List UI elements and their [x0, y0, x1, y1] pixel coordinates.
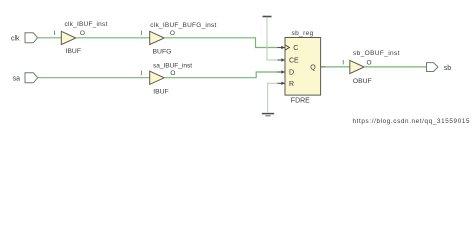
- wire BUFG to FDRE C pin: [164, 38, 281, 48]
- pin stub D with arrow: [278, 70, 286, 73]
- wire sa IBUF to FDRE D pin: [164, 72, 281, 78]
- svg-text:BUFG: BUFG: [153, 49, 172, 56]
- wire sa port to IBUF: [38, 77, 150, 79]
- buffer clk_IBUF_inst: [61, 31, 76, 44]
- svg-text:IBUF: IBUF: [153, 89, 168, 96]
- clock wedge on C pin: [285, 45, 289, 50]
- pin stub R with arrow: [278, 82, 286, 85]
- svg-text:I: I: [342, 59, 344, 66]
- svg-text:sb_reg: sb_reg: [292, 30, 314, 37]
- svg-text:sb: sb: [444, 65, 452, 72]
- svg-text:C: C: [293, 45, 298, 52]
- wire VCC to CE: [267, 17, 281, 60]
- svg-text:D: D: [289, 70, 294, 77]
- svg-text:sa_IBUF_inst: sa_IBUF_inst: [153, 62, 192, 69]
- buffer sb_OBUF_inst: [350, 60, 364, 73]
- wire IBUF to BUFG: [76, 37, 150, 39]
- port clk: [25, 33, 38, 43]
- svg-text:O: O: [80, 30, 85, 37]
- power VCC bar: [263, 16, 272, 18]
- port sa: [25, 73, 38, 83]
- svg-text:CE: CE: [289, 57, 299, 64]
- svg-text:clk_IBUF_BUFG_inst: clk_IBUF_BUFG_inst: [150, 22, 216, 29]
- wire GND to R: [268, 83, 281, 113]
- flip-flop sb_reg FDRE body: [285, 38, 321, 96]
- svg-text:Q: Q: [310, 64, 316, 71]
- svg-text:I: I: [54, 30, 56, 37]
- svg-text:O: O: [170, 30, 175, 37]
- port sb: [427, 63, 439, 72]
- svg-text:clk_IBUF_inst: clk_IBUF_inst: [65, 21, 108, 28]
- wire Q to OBUF: [326, 66, 350, 68]
- pin stub CE with arrow: [278, 58, 286, 61]
- svg-text:https://blog.csdn.net/qq_31559: https://blog.csdn.net/qq_31559015: [353, 118, 470, 125]
- svg-text:sa: sa: [13, 75, 21, 82]
- svg-text:I: I: [140, 70, 142, 77]
- svg-text:sb_OBUF_inst: sb_OBUF_inst: [353, 50, 400, 57]
- svg-text:I: I: [140, 30, 142, 37]
- wire clk port to IBUF: [38, 37, 62, 39]
- buffer sa_IBUF_inst: [150, 71, 165, 84]
- wire OBUF to sb port: [364, 66, 426, 68]
- svg-text:R: R: [289, 81, 294, 88]
- buffer clk_IBUF_BUFG_inst: [150, 31, 165, 44]
- svg-text:clk: clk: [11, 35, 20, 42]
- svg-text:FDRE: FDRE: [291, 98, 310, 105]
- svg-text:O: O: [170, 70, 175, 77]
- pin stub C with arrow: [278, 46, 286, 49]
- svg-text:O: O: [367, 59, 372, 66]
- svg-text:OBUF: OBUF: [353, 78, 372, 85]
- ground symbol: [262, 114, 274, 116]
- pin stub Q: [321, 66, 326, 68]
- svg-text:IBUF: IBUF: [66, 48, 81, 55]
